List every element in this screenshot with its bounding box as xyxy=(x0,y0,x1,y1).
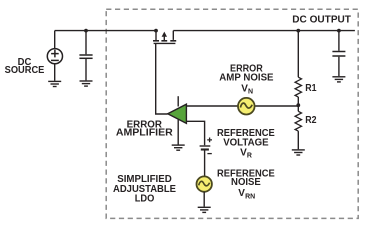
resistor R1 xyxy=(295,77,301,97)
node: output cap junction xyxy=(337,29,341,33)
svg-text:DC OUTPUT: DC OUTPUT xyxy=(292,14,351,26)
node: feedback divider xyxy=(296,103,300,107)
wire: gate to error amp output xyxy=(156,43,168,114)
wire xyxy=(297,97,299,111)
label: DC SOURCE xyxy=(5,57,45,76)
wire xyxy=(54,31,56,49)
wire: error amp + input to divider node xyxy=(186,105,298,107)
label: ERROR AMPLIFIER xyxy=(116,119,174,138)
node: input cap junction xyxy=(84,29,88,33)
svg-text:RN: RN xyxy=(245,193,255,200)
noise source VRN (yellow) xyxy=(197,176,212,206)
wire xyxy=(297,131,299,149)
svg-text:N: N xyxy=(248,89,253,96)
wire: down to R1 xyxy=(297,31,299,78)
wire: top rail right (MOSFET drain to DC OUTPUT) xyxy=(173,30,355,32)
node: DC output / R1 junction xyxy=(296,29,300,33)
DC source V1 xyxy=(47,31,62,81)
ground xyxy=(292,150,305,155)
transistor M1 (pass PMOS) xyxy=(153,31,176,44)
svg-text:R1: R1 xyxy=(305,83,317,94)
label: REFERENCE VOLTAGE VR xyxy=(217,128,275,159)
dashed LDO boundary box xyxy=(106,9,358,218)
ground xyxy=(198,207,211,212)
ground xyxy=(332,77,345,82)
node: MOSFET source junction xyxy=(154,29,158,33)
svg-text:AMP NOISE: AMP NOISE xyxy=(219,73,274,84)
resistor R2 xyxy=(295,111,301,131)
ground xyxy=(172,145,185,150)
battery VR (reference voltage) xyxy=(200,138,212,177)
gate bar xyxy=(154,42,176,44)
label: SIMPLIFIED ADJUSTABLE LDO xyxy=(113,174,176,205)
svg-text:NOISE: NOISE xyxy=(231,177,261,188)
capacitor C1 (input) xyxy=(79,31,92,81)
op-amp U1 (error amplifier, green) xyxy=(168,96,187,144)
svg-text:R: R xyxy=(247,153,252,160)
svg-text:LDO: LDO xyxy=(135,193,155,204)
svg-text:R2: R2 xyxy=(305,115,317,126)
supply stub xyxy=(177,96,179,106)
ground stub xyxy=(177,120,179,145)
noise source VN (yellow) xyxy=(238,98,255,115)
capacitor C2 (output) xyxy=(332,31,345,77)
wire xyxy=(54,64,56,81)
ground xyxy=(48,81,61,86)
label: ERROR AMP NOISE VN xyxy=(219,63,274,95)
svg-text:AMPLIFIER: AMPLIFIER xyxy=(116,128,174,139)
wire: error amp - input to reference xyxy=(186,121,204,145)
wire: top rail left (DC source to MOSFET source) xyxy=(55,30,156,32)
label: REFERENCE NOISE VRN xyxy=(217,168,275,200)
svg-text:SOURCE: SOURCE xyxy=(5,65,45,76)
ground xyxy=(80,81,93,86)
